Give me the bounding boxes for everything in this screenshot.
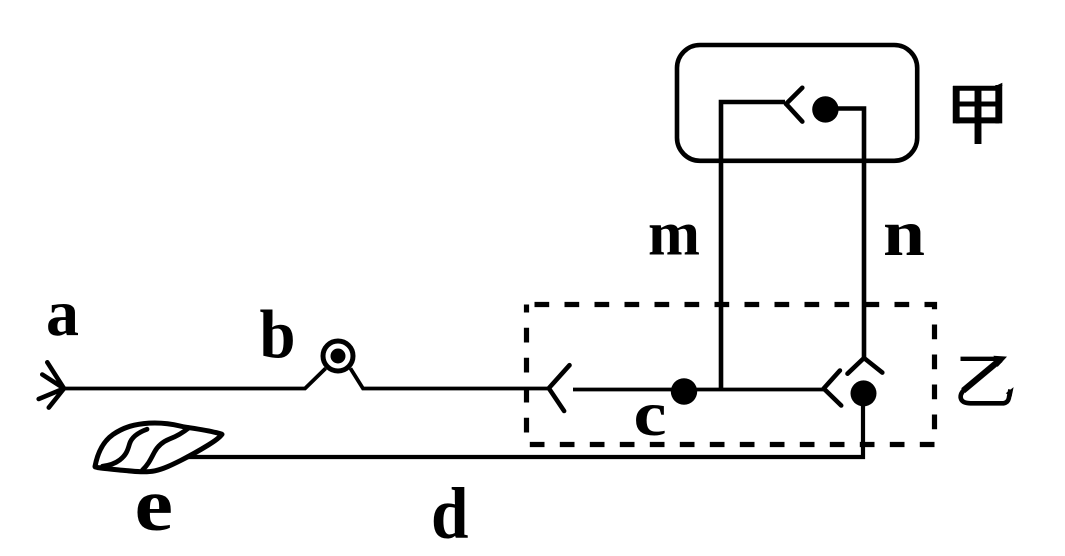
svg-text:c: c [634, 378, 667, 449]
svg-text:b: b [260, 297, 296, 373]
svg-text:e: e [135, 464, 174, 547]
svg-text:d: d [431, 473, 469, 554]
svg-text:a: a [46, 277, 79, 350]
svg-text:m: m [648, 198, 700, 269]
svg-text:n: n [883, 197, 925, 270]
